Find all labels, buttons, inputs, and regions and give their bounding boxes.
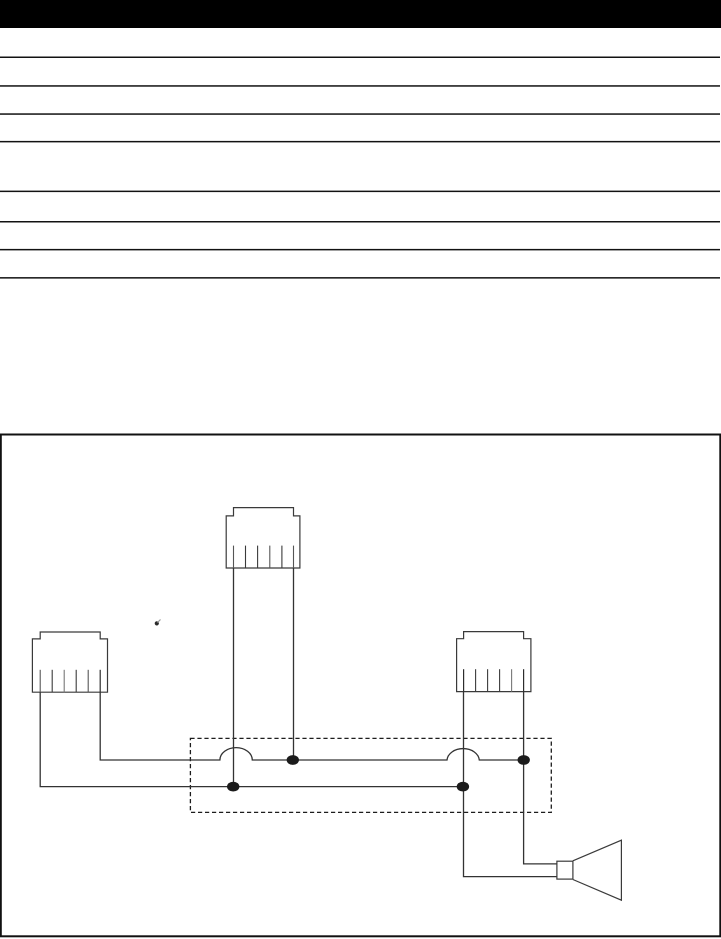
connector J3 pin 3	[487, 669, 489, 691]
connector J2 pin 4	[75, 670, 77, 692]
table rule row8	[0, 277, 720, 279]
table header bar	[0, 0, 721, 28]
wire: J3 pin1 drop through bottom bus to speaker lower terminal	[464, 692, 558, 877]
figure frame	[1, 435, 721, 937]
connector J1 (top modular plug) body	[226, 508, 300, 568]
connector J3 pin 2	[475, 669, 477, 691]
table rule row1	[0, 57, 720, 59]
connector J2 pin 6	[99, 670, 101, 692]
speaker LS1 driver box	[557, 861, 573, 879]
connector J1 pin 5	[281, 546, 283, 568]
table rule row4	[0, 141, 720, 143]
connector J2 pin 2	[51, 670, 53, 692]
connector J3 pin 6	[523, 669, 525, 691]
junction dot: J1 pin1 on bottom bus	[227, 782, 239, 792]
table rule row5	[0, 191, 720, 193]
connector J3 pin 1	[463, 669, 465, 691]
ink speck	[155, 621, 159, 625]
wire: top bus from J2 pin6 with hops	[100, 692, 523, 760]
junction dot: J3 pin6 on top bus	[518, 755, 530, 765]
connector J2 pin 5	[87, 670, 89, 692]
connector J2 pin 1	[39, 670, 41, 692]
table rule row7	[0, 249, 720, 251]
wire: J1 pin1 drop to bottom bus	[233, 568, 235, 787]
ink speck tail	[158, 620, 161, 623]
wire: bottom bus from J2 pin1	[40, 692, 463, 786]
wire: J3 pin6 drop through top bus to speaker upper terminal	[524, 692, 558, 864]
table rule row6	[0, 221, 720, 223]
table rule row3	[0, 113, 720, 115]
connector J3 (right modular plug) body	[457, 632, 531, 692]
connector J1 pin 4	[269, 546, 271, 568]
connector J1 pin 6	[293, 546, 295, 568]
wire: J1 pin6 drop to top bus	[293, 568, 295, 760]
connector J3 pin 4	[499, 669, 501, 691]
connector J3 pin 5	[511, 669, 513, 691]
junction dot: J1 pin6 on top bus	[287, 755, 299, 765]
connector J1 pin 1	[233, 546, 235, 568]
connector J2 pin 3	[63, 670, 65, 692]
terminal block (dashed outline)	[190, 738, 551, 812]
connector J1 pin 2	[245, 546, 247, 568]
connector J2 (left modular plug) body	[32, 632, 107, 692]
junction dot: J3 pin1 on bottom bus	[457, 782, 469, 792]
connector J1 pin 3	[257, 546, 259, 568]
table rule row2	[0, 85, 720, 87]
speaker LS1 horn	[573, 840, 622, 900]
